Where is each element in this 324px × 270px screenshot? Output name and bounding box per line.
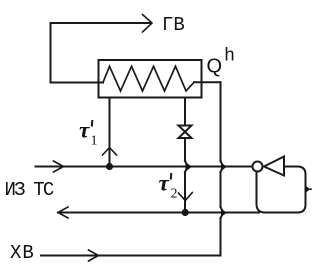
wire riser x=220.5 down to XB line [220,82,222,255]
wire supply line (iz TS) [36,166,253,168]
svg-text:2: 2 [171,187,178,202]
flow arrow at riser/supply crossing [221,163,227,172]
wire return line [58,212,259,214]
arrowhead left on return line [58,207,68,218]
wire HX coil right end to vertical riser [194,81,221,83]
valve V1 [179,126,192,139]
wire XB line horizontal [41,255,221,257]
arrowhead on supply line [54,161,64,172]
svg-text:Q: Q [207,56,223,78]
svg-text:ХВ: ХВ [10,242,35,264]
heat exchanger U1 box [99,60,202,98]
wire pump loop left drop [257,172,266,213]
svg-text:ГВ: ГВ [162,14,185,36]
tick on pump loop arrow [310,188,312,190]
label tau2 prime [170,173,173,180]
arrowhead on XB line [89,250,99,261]
wire valve branch lower segment [184,139,186,213]
wire pump loop right side [265,167,306,213]
arrowhead down on valve branch [179,193,193,201]
wire HX outlet to GV arrow [51,23,152,83]
svg-text:τ: τ [159,171,170,196]
wire valve branch upper segment [184,98,186,125]
pump P1 triangle [264,157,284,176]
arrowhead to GV [143,15,153,33]
heat exchanger coil zigzag [103,66,194,91]
flow arrow on pump loop right edge [306,186,310,193]
junction node dot at tau2 [182,209,189,216]
svg-text:1: 1 [91,134,98,149]
flow arrow at valve-branch/supply crossing [186,163,192,172]
arrowhead up on left tapping [103,148,117,156]
junction node dot at tau1 [106,163,113,170]
label tau1 prime [91,120,94,127]
wire HX left tapping down to supply [109,98,111,167]
flow arrow at riser/return crossing [221,209,227,218]
svg-text:τ: τ [79,118,90,143]
pump P1 circle [253,162,263,172]
valve branch jog at supply crossing [185,161,187,172]
svg-text:h: h [225,45,235,65]
riser jog at supply crossing [221,161,223,172]
riser jog at return crossing [221,207,223,218]
svg-text:ИЗ ТС: ИЗ ТС [5,179,54,201]
